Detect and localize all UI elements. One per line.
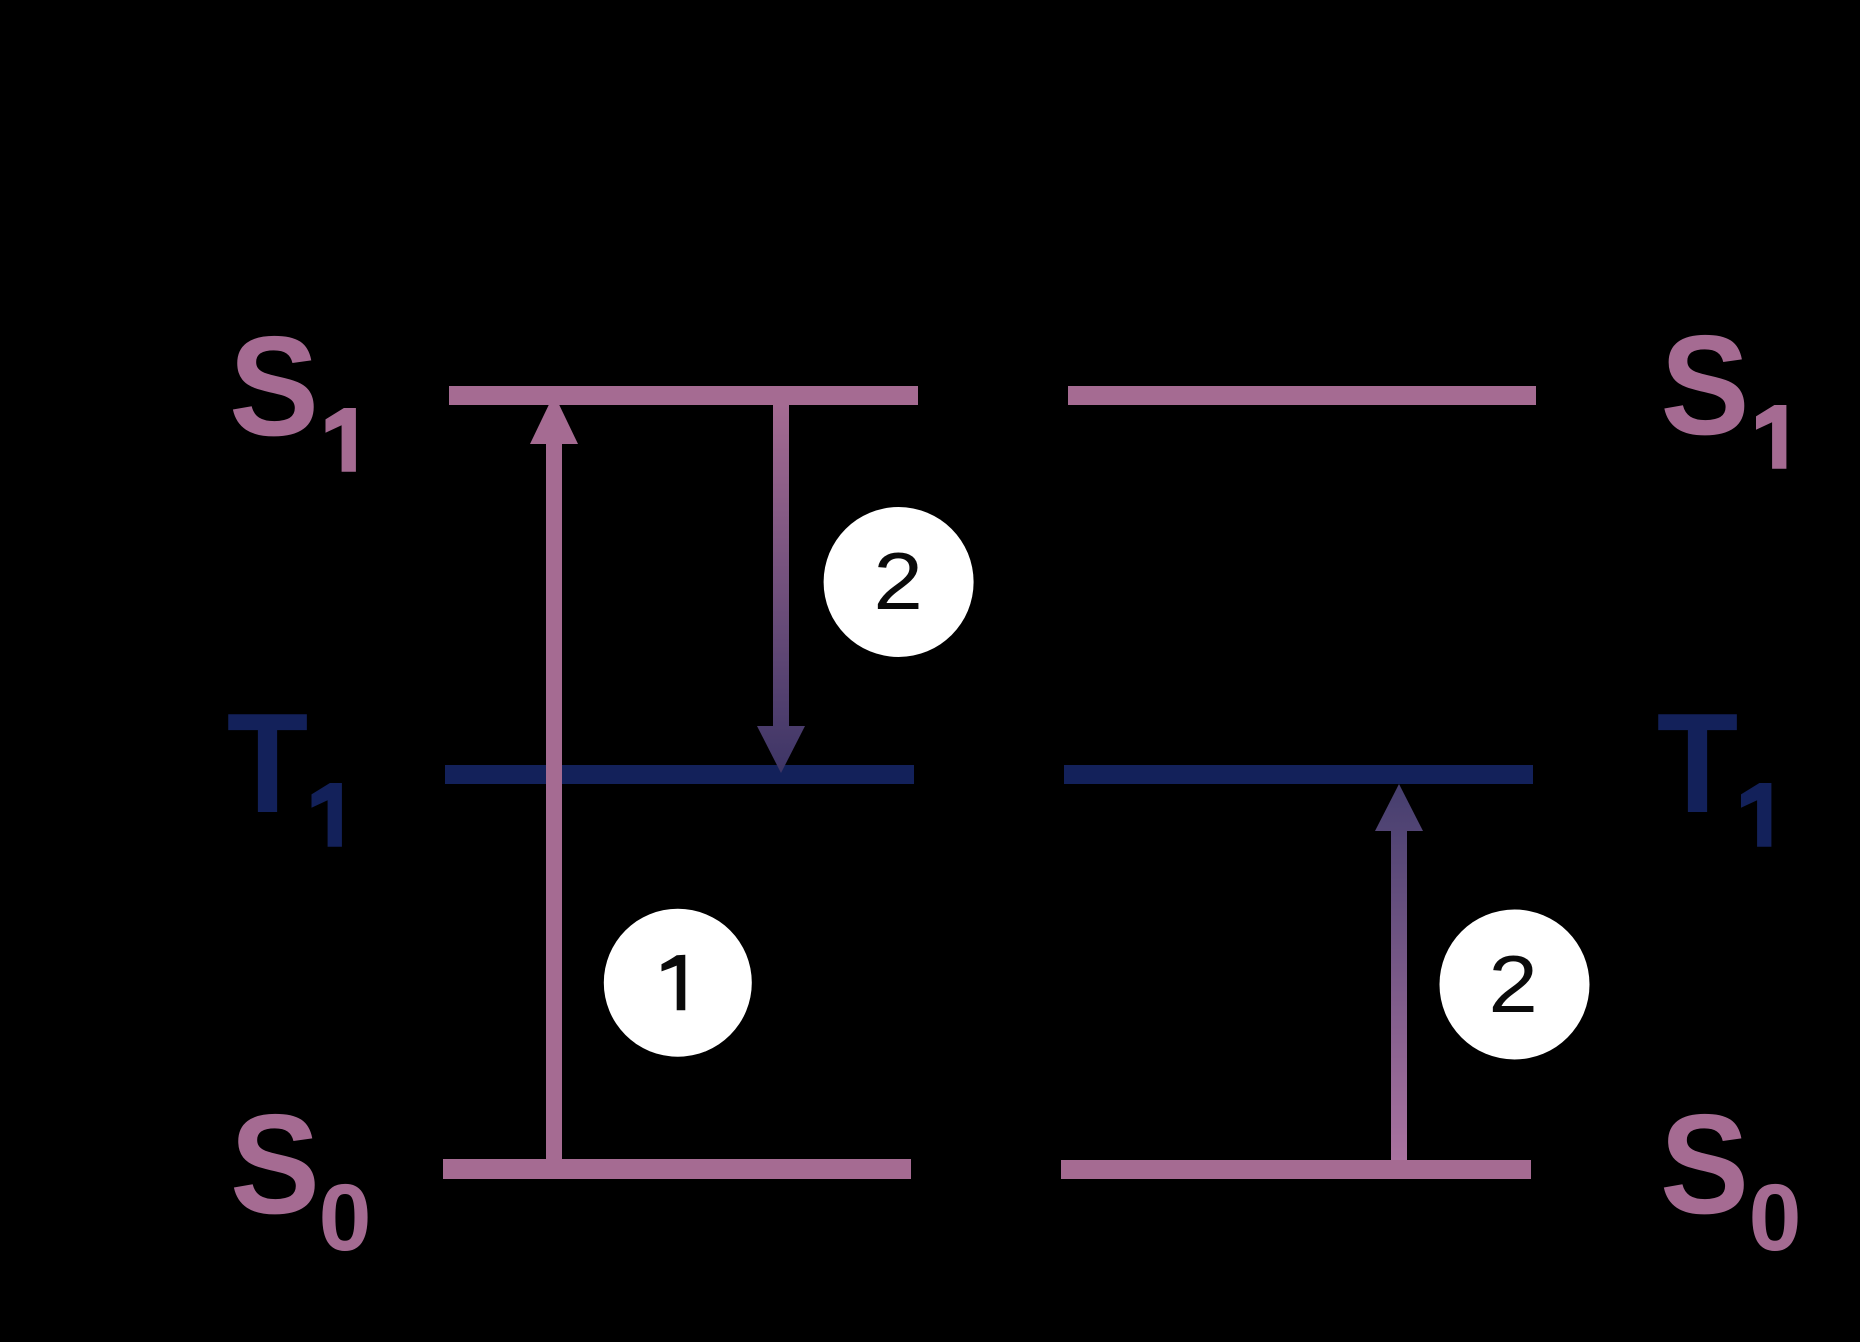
svg-text:S: S [1660, 306, 1749, 465]
label T1 right [1657, 684, 1772, 847]
digit 1 in badge [662, 955, 686, 1010]
svg-text:S: S [229, 308, 319, 466]
label S0 right [1660, 1085, 1801, 1271]
svg-text:T: T [227, 684, 309, 843]
level T1 left line [445, 765, 914, 784]
arrow 2 left: ISC S1 to T1 (gradient down) [757, 405, 805, 773]
svg-text:T: T [1657, 684, 1739, 843]
svg-text:0: 0 [319, 1165, 372, 1271]
svg-text:S: S [1660, 1085, 1749, 1244]
arrow 2 right: S0 to T1 (gradient up) [1375, 784, 1423, 1160]
svg-text:0: 0 [1749, 1165, 1802, 1271]
circle badge 2 (left diagram) [824, 507, 974, 657]
circle badge 2 (right diagram) [1440, 910, 1590, 1060]
svg-text:S: S [230, 1086, 320, 1244]
level S1 left line [449, 386, 918, 405]
level S1 right line [1068, 386, 1536, 405]
level T1 right line [1064, 765, 1533, 784]
label S1 left [229, 308, 356, 472]
level S0 right line [1061, 1160, 1531, 1179]
svg-text:2: 2 [1488, 940, 1538, 1030]
label S0 left [230, 1086, 371, 1271]
level S0 left line [443, 1159, 911, 1179]
svg-text:2: 2 [873, 537, 923, 627]
label S1 right [1660, 306, 1786, 469]
arrow 1: excitation S0 to S1 (left, solid pink) [530, 394, 578, 1159]
circle badge 1 [604, 909, 752, 1057]
label T1 left [227, 684, 342, 847]
